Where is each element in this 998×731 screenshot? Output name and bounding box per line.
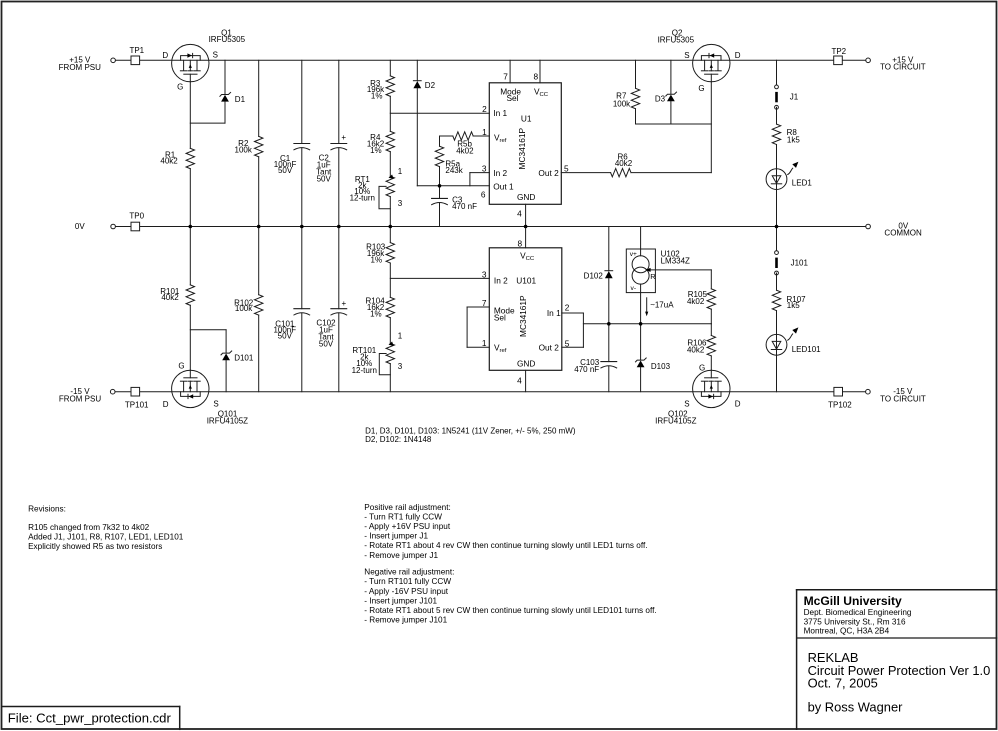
- svg-text:S: S: [213, 400, 218, 409]
- svg-text:2: 2: [482, 104, 487, 114]
- svg-text:7: 7: [503, 71, 508, 81]
- svg-text:- Rotate RT1 about 5 rev CW th: - Rotate RT1 about 5 rev CW then continu…: [364, 606, 656, 615]
- svg-text:7: 7: [482, 298, 487, 308]
- svg-text:470 nF: 470 nF: [574, 365, 599, 374]
- svg-text:Revisions:: Revisions:: [28, 505, 66, 514]
- svg-text:3: 3: [398, 362, 403, 371]
- svg-text:D2: D2: [425, 81, 436, 90]
- svg-text:FROM PSU: FROM PSU: [59, 394, 101, 403]
- svg-text:1: 1: [398, 332, 403, 341]
- svg-text:G: G: [699, 363, 705, 372]
- svg-text:G: G: [698, 84, 704, 93]
- svg-text:S: S: [684, 51, 689, 60]
- svg-text:D: D: [735, 51, 741, 60]
- svg-text:1k5: 1k5: [787, 135, 800, 144]
- svg-text:LM334Z: LM334Z: [661, 257, 690, 266]
- svg-text:TP101: TP101: [125, 401, 149, 410]
- svg-text:+: +: [342, 299, 347, 308]
- svg-text:D1: D1: [235, 95, 246, 104]
- svg-text:40k2: 40k2: [615, 159, 633, 168]
- svg-text:Out 2: Out 2: [539, 343, 560, 353]
- svg-text:- Insert jumper J101: - Insert jumper J101: [364, 596, 437, 605]
- svg-text:8: 8: [533, 71, 538, 81]
- svg-text:100k: 100k: [235, 146, 253, 155]
- svg-text:Montreal, QC, H3A 2B4: Montreal, QC, H3A 2B4: [804, 627, 890, 636]
- svg-text:40k2: 40k2: [687, 346, 705, 355]
- svg-text:D: D: [162, 51, 168, 60]
- svg-text:In 1: In 1: [547, 308, 561, 318]
- svg-text:D: D: [735, 400, 741, 409]
- svg-text:Out 1: Out 1: [493, 181, 514, 191]
- svg-text:2: 2: [565, 303, 570, 313]
- svg-text:50V: 50V: [278, 332, 293, 341]
- svg-text:G: G: [178, 362, 184, 371]
- svg-text:- Rotate RT1 about 4 rev CW th: - Rotate RT1 about 4 rev CW then continu…: [364, 541, 647, 550]
- svg-text:v+: v+: [630, 251, 637, 258]
- svg-text:S: S: [684, 400, 689, 409]
- svg-text:- Turn RT101 fully CCW: - Turn RT101 fully CCW: [364, 577, 451, 586]
- svg-text:TO CIRCUIT: TO CIRCUIT: [880, 62, 926, 71]
- svg-text:- Remove jumper J101: - Remove jumper J101: [364, 616, 447, 625]
- svg-text:J101: J101: [791, 259, 809, 268]
- svg-text:3: 3: [398, 199, 403, 208]
- svg-text:LED1: LED1: [792, 179, 813, 188]
- svg-text:6: 6: [481, 190, 486, 200]
- svg-text:50V: 50V: [278, 166, 293, 175]
- svg-text:D102: D102: [584, 272, 604, 281]
- svg-text:470 nF: 470 nF: [452, 202, 477, 211]
- svg-text:GND: GND: [517, 192, 535, 202]
- svg-text:LED101: LED101: [792, 345, 821, 354]
- svg-text:MC34161P: MC34161P: [517, 127, 527, 169]
- svg-text:File: Cct_pwr_protection.cdr: File: Cct_pwr_protection.cdr: [8, 710, 172, 725]
- svg-text:~17uA: ~17uA: [650, 300, 674, 309]
- svg-text:Sel: Sel: [507, 93, 519, 103]
- svg-text:8: 8: [517, 239, 522, 249]
- svg-text:5: 5: [565, 339, 570, 349]
- svg-text:3775 University St., Rm 316: 3775 University St., Rm 316: [804, 617, 906, 626]
- svg-text:U1: U1: [521, 114, 532, 124]
- svg-text:- Turn RT1 fully CCW: - Turn RT1 fully CCW: [364, 512, 442, 521]
- svg-text:McGill University: McGill University: [804, 594, 902, 608]
- svg-text:3: 3: [482, 270, 487, 280]
- svg-text:TP1: TP1: [129, 46, 144, 55]
- svg-text:100k: 100k: [235, 304, 253, 313]
- svg-text:5: 5: [564, 164, 569, 174]
- svg-text:COMMON: COMMON: [884, 229, 922, 238]
- svg-text:R105 changed from 7k32 to 4k02: R105 changed from 7k32 to 4k02: [28, 523, 150, 532]
- svg-text:40k2: 40k2: [161, 293, 179, 302]
- svg-text:Positive rail adjustment:: Positive rail adjustment:: [364, 503, 450, 512]
- svg-text:D103: D103: [651, 362, 671, 371]
- svg-text:U101: U101: [516, 276, 536, 286]
- svg-text:- Apply -16V PSU input: - Apply -16V PSU input: [364, 587, 448, 596]
- svg-text:TP102: TP102: [828, 401, 852, 410]
- svg-text:In 2: In 2: [494, 276, 508, 286]
- svg-text:IRFU4105Z: IRFU4105Z: [655, 417, 696, 426]
- svg-text:1: 1: [482, 338, 487, 348]
- svg-text:MC34161P: MC34161P: [518, 295, 528, 337]
- svg-text:50V: 50V: [317, 175, 332, 184]
- svg-text:Out 2: Out 2: [538, 168, 559, 178]
- svg-text:12-turn: 12-turn: [352, 366, 377, 375]
- svg-text:v-: v-: [631, 285, 637, 292]
- svg-text:by Ross Wagner: by Ross Wagner: [808, 700, 904, 715]
- svg-text:50V: 50V: [319, 340, 334, 349]
- svg-text:1: 1: [482, 127, 487, 137]
- svg-text:243k: 243k: [445, 166, 463, 175]
- svg-text:Negative rail adjustment:: Negative rail adjustment:: [364, 568, 454, 577]
- svg-text:In 1: In 1: [493, 108, 507, 118]
- svg-text:J1: J1: [790, 93, 799, 102]
- svg-text:G: G: [177, 83, 183, 92]
- svg-text:1%: 1%: [370, 146, 382, 155]
- svg-text:100k: 100k: [613, 100, 631, 109]
- svg-text:IRFU5305: IRFU5305: [658, 36, 695, 45]
- svg-text:Oct. 7, 2005: Oct. 7, 2005: [808, 676, 878, 691]
- svg-text:D2, D102: 1N4148: D2, D102: 1N4148: [365, 435, 432, 444]
- svg-text:4k02: 4k02: [687, 297, 705, 306]
- svg-text:D: D: [163, 400, 169, 409]
- svg-text:R: R: [650, 272, 655, 281]
- svg-text:1k5: 1k5: [787, 301, 800, 310]
- svg-text:D3: D3: [655, 95, 666, 104]
- svg-text:TP2: TP2: [831, 47, 846, 56]
- svg-text:+: +: [341, 133, 346, 142]
- svg-text:1: 1: [398, 167, 403, 176]
- svg-text:4k02: 4k02: [456, 147, 474, 156]
- svg-text:1%: 1%: [371, 256, 383, 265]
- svg-text:- Apply +16V PSU input: - Apply +16V PSU input: [364, 522, 451, 531]
- svg-text:- Insert jumper J1: - Insert jumper J1: [364, 532, 428, 541]
- svg-text:- Remove jumper J1: - Remove jumper J1: [364, 551, 438, 560]
- svg-text:Sel: Sel: [494, 313, 506, 323]
- svg-text:3: 3: [482, 163, 487, 173]
- svg-text:12-turn: 12-turn: [350, 193, 375, 202]
- svg-text:1%: 1%: [371, 92, 383, 101]
- svg-text:Added J1, J101, R8, R107, LED1: Added J1, J101, R8, R107, LED1, LED101: [28, 533, 184, 542]
- svg-text:Dept. Biomedical Engineering: Dept. Biomedical Engineering: [804, 608, 912, 617]
- svg-text:40k2: 40k2: [160, 157, 178, 166]
- svg-text:S: S: [213, 51, 218, 60]
- svg-text:D101: D101: [234, 354, 254, 363]
- svg-text:4: 4: [517, 209, 522, 219]
- svg-text:1%: 1%: [370, 310, 382, 319]
- svg-text:IRFU5305: IRFU5305: [209, 35, 246, 44]
- svg-text:TP0: TP0: [129, 211, 144, 220]
- svg-text:0V: 0V: [75, 222, 85, 231]
- svg-text:Explicitly showed R5 as two re: Explicitly showed R5 as two resistors: [28, 542, 162, 551]
- svg-text:TO CIRCUIT: TO CIRCUIT: [880, 395, 926, 404]
- svg-text:GND: GND: [517, 359, 535, 369]
- svg-text:In 2: In 2: [493, 168, 507, 178]
- svg-text:4: 4: [517, 376, 522, 386]
- svg-text:FROM PSU: FROM PSU: [59, 63, 101, 72]
- svg-text:IRFU4105Z: IRFU4105Z: [207, 417, 248, 426]
